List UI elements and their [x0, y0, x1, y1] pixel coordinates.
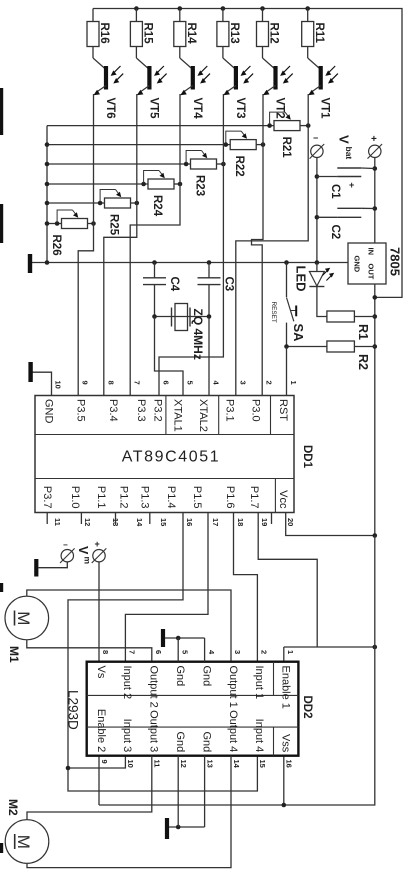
svg-text:Gnd: Gnd: [200, 732, 212, 753]
svg-text:14: 14: [135, 518, 144, 527]
svg-text:VT5: VT5: [147, 98, 159, 120]
svg-text:M1: M1: [7, 646, 21, 663]
svg-text:LED: LED: [294, 266, 309, 292]
svg-text:2: 2: [260, 650, 269, 654]
svg-text:7805: 7805: [388, 247, 403, 276]
svg-text:19: 19: [260, 518, 269, 526]
svg-text:8: 8: [101, 650, 110, 654]
svg-text:R21: R21: [280, 137, 292, 159]
svg-text:14: 14: [232, 760, 241, 769]
svg-text:R22: R22: [233, 156, 245, 177]
svg-text:C4: C4: [168, 277, 180, 292]
svg-text:P1.0: P1.0: [69, 486, 81, 509]
svg-text:5: 5: [186, 381, 195, 385]
svg-text:2: 2: [265, 381, 274, 385]
svg-text:C2: C2: [329, 225, 341, 240]
svg-text:P3.4: P3.4: [107, 399, 119, 422]
svg-text:R24: R24: [151, 195, 163, 217]
svg-text:DD2: DD2: [301, 696, 313, 719]
svg-text:12: 12: [179, 760, 188, 768]
svg-text:Input 3: Input 3: [121, 719, 133, 753]
svg-text:Input 4: Input 4: [253, 719, 265, 753]
svg-text:−: −: [63, 541, 68, 550]
svg-text:R11: R11: [313, 23, 325, 44]
svg-text:20: 20: [286, 518, 295, 526]
svg-text:XTAL2: XTAL2: [197, 399, 209, 432]
svg-text:P3.2: P3.2: [152, 399, 164, 422]
svg-text:R1: R1: [356, 324, 370, 340]
svg-text:15: 15: [258, 760, 267, 768]
svg-text:3: 3: [233, 650, 242, 654]
svg-text:bat: bat: [344, 147, 354, 160]
svg-text:P3.3: P3.3: [135, 399, 147, 422]
svg-text:GND: GND: [42, 399, 54, 424]
svg-text:Output 1: Output 1: [227, 666, 239, 708]
svg-text:16: 16: [285, 760, 294, 768]
svg-text:m: m: [83, 557, 93, 565]
svg-text:P3.5: P3.5: [75, 399, 87, 422]
svg-text:17: 17: [211, 518, 220, 526]
svg-text:1: 1: [289, 381, 298, 385]
svg-text:Input 1: Input 1: [253, 666, 265, 700]
svg-text:M2: M2: [6, 799, 20, 816]
svg-text:13: 13: [205, 760, 214, 768]
svg-text:12: 12: [83, 518, 92, 526]
svg-text:P1.7: P1.7: [248, 486, 260, 509]
svg-text:DD1: DD1: [301, 445, 313, 469]
svg-text:R26: R26: [50, 235, 62, 256]
svg-text:R25: R25: [108, 214, 120, 236]
svg-text:16: 16: [185, 518, 194, 526]
svg-text:C1: C1: [329, 184, 341, 199]
svg-text:18: 18: [236, 518, 245, 526]
svg-text:C3: C3: [223, 277, 235, 292]
svg-text:+: +: [349, 180, 354, 190]
svg-text:M: M: [14, 835, 33, 849]
svg-text:RST: RST: [277, 399, 289, 421]
svg-text:R14: R14: [185, 23, 197, 45]
svg-text:Enable 1: Enable 1: [280, 666, 292, 709]
svg-text:5: 5: [180, 650, 189, 654]
svg-text:+: +: [371, 134, 377, 145]
svg-text:Gnd: Gnd: [200, 666, 212, 687]
svg-text:1: 1: [286, 650, 295, 654]
svg-text:15: 15: [159, 518, 168, 526]
svg-text:Output 4: Output 4: [227, 710, 239, 752]
svg-text:7: 7: [133, 381, 142, 385]
svg-text:VT4: VT4: [191, 98, 203, 120]
svg-text:P3.7: P3.7: [41, 486, 53, 509]
svg-text:VT2: VT2: [274, 98, 286, 119]
svg-text:VT6: VT6: [104, 98, 116, 119]
svg-text:7: 7: [128, 650, 137, 654]
svg-text:XTAL1: XTAL1: [172, 399, 184, 432]
svg-text:10: 10: [54, 381, 63, 389]
svg-text:M: M: [14, 611, 33, 625]
svg-text:8: 8: [106, 381, 115, 385]
svg-text:Output 2: Output 2: [148, 666, 160, 708]
svg-text:VT1: VT1: [319, 98, 331, 120]
svg-text:V: V: [76, 546, 90, 555]
svg-text:9: 9: [81, 381, 90, 385]
svg-text:R15: R15: [142, 23, 154, 45]
svg-text:R16: R16: [98, 23, 110, 44]
svg-text:GND: GND: [353, 256, 362, 273]
svg-text:10: 10: [126, 760, 135, 768]
svg-text:6: 6: [162, 381, 171, 385]
svg-text:11: 11: [53, 518, 62, 526]
svg-text:P1.4: P1.4: [165, 486, 177, 509]
svg-text:Input 2: Input 2: [121, 666, 133, 700]
svg-text:R12: R12: [268, 23, 280, 44]
svg-text:4: 4: [207, 650, 216, 655]
svg-text:Gnd: Gnd: [174, 732, 186, 753]
svg-text:+: +: [95, 539, 100, 549]
svg-text:P1.2: P1.2: [118, 486, 130, 509]
svg-text:IN: IN: [367, 248, 376, 256]
svg-text:Vs: Vs: [95, 666, 107, 679]
svg-text:6: 6: [154, 650, 163, 654]
svg-text:L293D: L293D: [66, 690, 81, 730]
svg-text:Output 3: Output 3: [148, 710, 160, 752]
svg-text:P1.6: P1.6: [224, 486, 236, 509]
svg-text:4: 4: [212, 381, 221, 386]
svg-text:AT89C4051: AT89C4051: [122, 449, 221, 466]
svg-text:P1.3: P1.3: [139, 486, 151, 509]
svg-text:−: −: [313, 133, 318, 143]
svg-text:Vcc: Vcc: [277, 490, 289, 509]
svg-text:R23: R23: [194, 175, 206, 196]
svg-text:SA: SA: [291, 324, 306, 343]
svg-text:P1.1: P1.1: [95, 486, 107, 509]
svg-text:R13: R13: [228, 23, 240, 44]
svg-text:11: 11: [153, 760, 162, 768]
svg-text:Enable 2: Enable 2: [95, 709, 107, 752]
svg-text:P3.1: P3.1: [224, 399, 236, 422]
svg-text:P3.0: P3.0: [250, 399, 262, 422]
svg-text:V: V: [337, 135, 352, 144]
svg-text:Gnd: Gnd: [174, 666, 186, 687]
svg-text:R2: R2: [356, 354, 370, 370]
svg-text:P1.5: P1.5: [191, 486, 203, 509]
svg-text:9: 9: [100, 760, 109, 764]
svg-text:RESET: RESET: [270, 302, 277, 323]
svg-text:3: 3: [238, 381, 247, 385]
svg-text:Vss: Vss: [280, 734, 292, 753]
svg-text:ZQ 4MHz: ZQ 4MHz: [191, 309, 205, 360]
svg-text:VT3: VT3: [234, 98, 246, 119]
svg-text:OUT: OUT: [367, 264, 376, 280]
